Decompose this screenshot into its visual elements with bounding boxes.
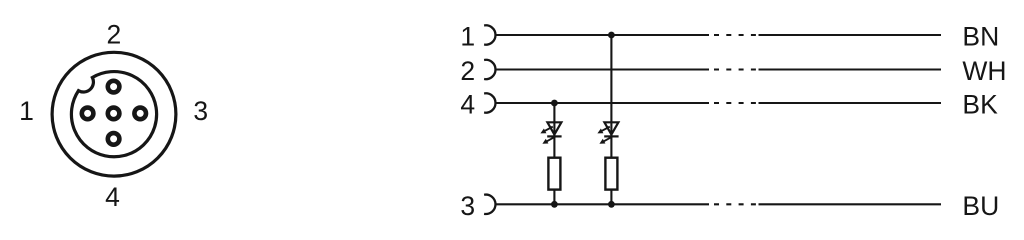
svg-text:BU: BU xyxy=(962,191,999,221)
svg-text:WH: WH xyxy=(962,56,1006,86)
svg-text:BK: BK xyxy=(962,90,998,120)
svg-text:2: 2 xyxy=(460,56,475,86)
svg-text:3: 3 xyxy=(460,191,475,221)
svg-text:1: 1 xyxy=(460,22,475,52)
svg-text:2: 2 xyxy=(107,19,122,49)
svg-text:BN: BN xyxy=(962,22,999,52)
svg-text:4: 4 xyxy=(460,90,475,120)
svg-text:1: 1 xyxy=(19,96,34,126)
svg-text:4: 4 xyxy=(105,182,120,212)
svg-text:3: 3 xyxy=(193,96,208,126)
